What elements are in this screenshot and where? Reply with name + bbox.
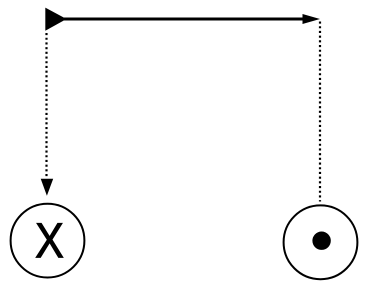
- node A: left circle (current into page): [11, 204, 85, 278]
- node B: right circle (current out of page): [284, 205, 358, 279]
- dot (out-of-page symbol): [312, 232, 330, 250]
- wire: top horizontal arrow shaft: [64, 18, 305, 21]
- arrowhead right (pointing right): [303, 14, 321, 24]
- arrowhead left (large solid triangle pointing right): [45, 8, 66, 31]
- wire: left vertical dotted line: [45, 33, 47, 179]
- wire: right vertical dotted line: [319, 22, 321, 202]
- arrowhead down (on left dotted line): [41, 179, 54, 196]
- label X (into-page symbol): [36, 223, 63, 257]
